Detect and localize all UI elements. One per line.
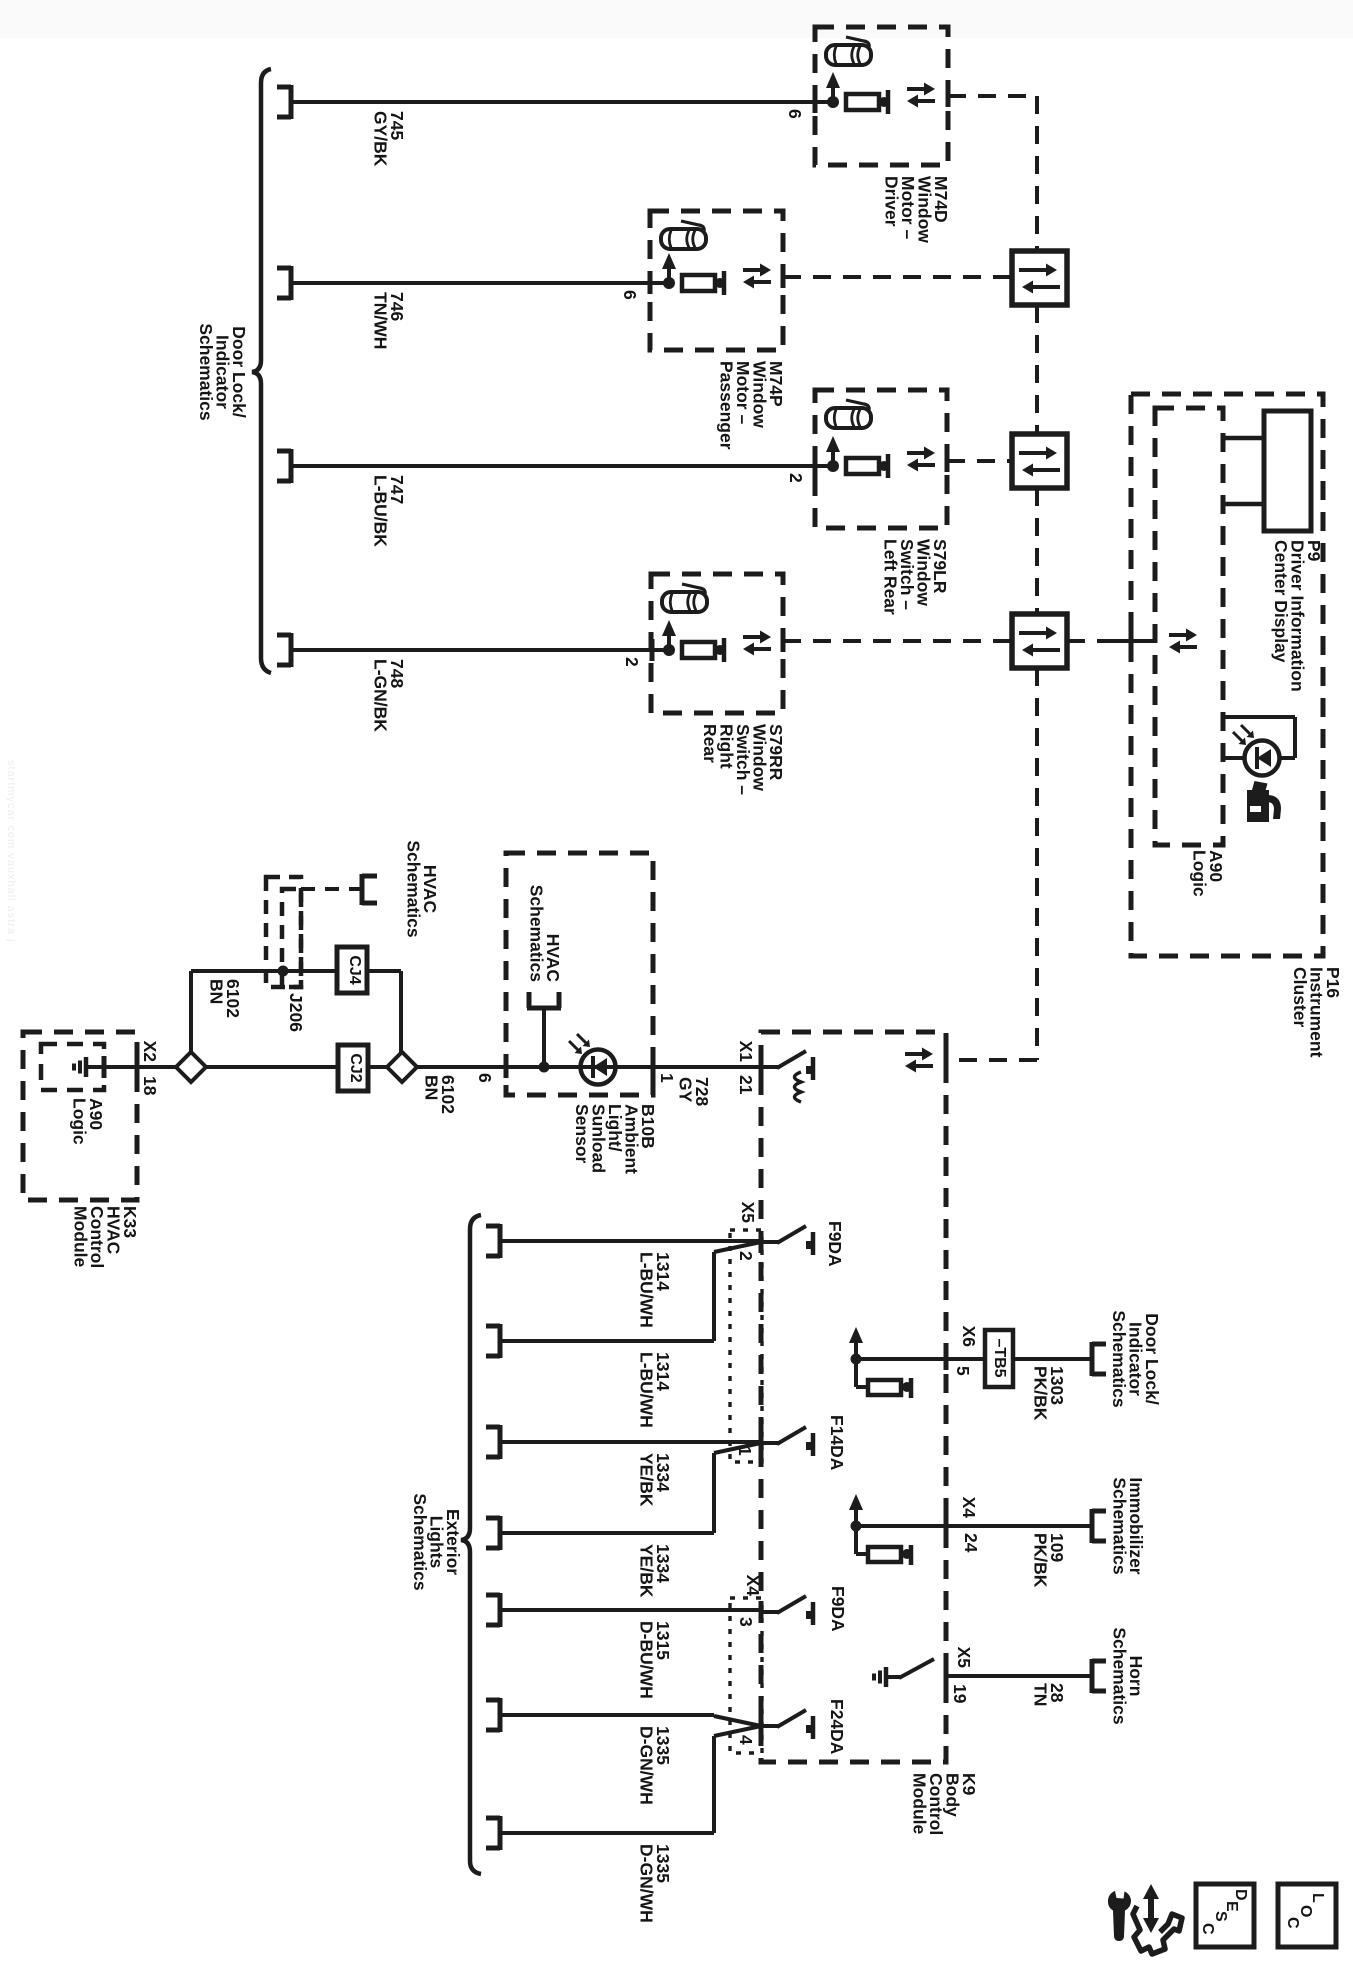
arrow up at X4-24 [851,1521,862,1532]
connector X4 dotted box [730,1598,762,1753]
HVAC reference connector (B10B) [527,1006,561,1011]
resistor to ground (X4-24) [854,1526,858,1554]
window switch S79RR car icon [662,592,707,612]
dashed wire S79RR to gateway 3 [783,639,1012,643]
svg-text:PK/BK: PK/BK [1031,1533,1051,1588]
window switch S79LR box [815,390,947,528]
wire branch up from splice S1 [189,971,193,1052]
window motor M74P serial data arrows [743,268,760,272]
immobilizer reference connector [1090,1509,1095,1543]
wire TB5 to door lock reference [1013,1357,1092,1361]
connector wire 1335 (1833) [498,1816,503,1850]
svg-text:4: 4 [736,1735,756,1745]
svg-text:Schematics: Schematics [1109,1310,1129,1408]
svg-text:Schematics: Schematics [196,323,216,421]
svg-text:Logic: Logic [1190,850,1210,897]
svg-text:D-BU/WH: D-BU/WH [637,1621,657,1699]
svg-text:D: D [1232,1889,1249,1901]
svg-text:X5: X5 [954,1647,974,1669]
driver switch F9DA (X5-2) [761,1240,778,1244]
junction J206 dot [278,966,289,977]
svg-text:5: 5 [953,1366,973,1376]
svg-text:GY/BK: GY/BK [371,111,391,167]
dashed bus gateway1 to gateway2 [1035,305,1039,434]
svg-text:X5: X5 [738,1202,758,1224]
wire 1314 L-BU/WH (1241) [500,1239,761,1243]
wrench icon [1108,1891,1131,1941]
svg-text:Module: Module [71,1206,91,1268]
wire splice S1 to CJ2 [206,1065,338,1069]
connector X5 dotted box [730,1230,762,1462]
svg-text:Schematics: Schematics [404,840,424,938]
coil driver mark [795,1072,802,1102]
svg-text:3: 3 [736,1617,756,1627]
svg-text:C: C [1284,1917,1301,1929]
svg-text:18: 18 [140,1076,160,1096]
connector wire 747 [289,449,294,483]
horn switch stub [886,1675,900,1679]
window switch S79LR serial data arrows [907,451,924,455]
wire 1314 L-BU/WH (1341) [500,1339,714,1343]
dashed wire M74D to bus [948,94,1037,98]
fuel pump telltale icon [1247,790,1269,822]
svg-text:X1: X1 [736,1041,756,1063]
wire jog 1335 up [712,1736,716,1833]
serial data gateway box 3 [1012,614,1067,668]
wire 728 GY [653,1065,761,1069]
DESC reference box [1196,1884,1254,1947]
connector wire 1314 (1341) [498,1324,503,1358]
svg-text:YE/BK: YE/BK [637,1453,657,1507]
svg-text:X6: X6 [959,1326,979,1348]
svg-text:L-BU/WH: L-BU/WH [637,1352,657,1428]
LOC reference box [1278,1884,1336,1947]
svg-text:X4: X4 [743,1575,763,1597]
svg-text:–TB5: –TB5 [991,1338,1008,1377]
logic module A90 box (K33) [41,1044,104,1090]
wire K33 ground to X2 pin 18 [86,1065,176,1069]
driver switch F9DA (X4-3) [761,1610,778,1614]
svg-text:2: 2 [622,657,642,667]
window motor M74P car icon [661,229,706,249]
svg-text:L-BU/BK: L-BU/BK [371,475,391,547]
svg-text:Rear: Rear [700,724,720,763]
svg-text:Left Rear: Left Rear [881,539,901,615]
wire X6-5 internal [856,1357,946,1361]
window motor M74P motor element [663,277,675,289]
wire X4-24 internal [856,1524,946,1528]
splice pack J206 box B [282,889,301,987]
svg-text:O: O [1297,1905,1314,1917]
splice diamond S1 [176,1052,206,1082]
wire upper branch to CJ4 [191,969,337,973]
svg-text:F14DA: F14DA [827,1415,847,1471]
pin ticks at box-edge crossings [135,1056,140,1078]
wire X5-19 to horn reference [946,1674,1092,1678]
stem to sensor wire [542,1008,546,1067]
connector wire 746 [289,266,294,300]
connector wire 1314 (1241) [498,1224,503,1258]
serial arrows in BCM [905,1052,922,1056]
junction block CJ4 [337,947,367,993]
wire 748 L-GN/BK [291,648,669,652]
dashed bus into BCM [946,1058,1037,1062]
window switch S79LR motor element [827,460,839,472]
svg-text:19: 19 [950,1684,970,1704]
ground (K33 logic) [84,1057,89,1077]
wire 747 L-BU/BK [291,464,833,468]
ground (horn switch) [884,1667,889,1687]
connector wire 1334 (1442) [498,1425,503,1459]
indicator LED D1 (cluster) [1223,715,1295,719]
svg-text:Schematics: Schematics [1110,1627,1130,1725]
window motor M74P box [650,211,783,350]
window motor M74D serial data arrows [907,87,924,91]
driver switch F14DA (pin 1) [761,1441,778,1445]
svg-text:Logic: Logic [70,1098,90,1145]
wire CJ2 to splice S2 [368,1065,387,1069]
pointer zigzag icon [1133,1906,1182,1954]
svg-text:2: 2 [786,473,806,483]
svg-text:YE/BK: YE/BK [637,1544,657,1598]
svg-text:CJ4: CJ4 [346,955,363,984]
svg-text:Sensor: Sensor [572,1104,592,1164]
wire jog 1314 pair [712,1252,716,1341]
wire through B10B [506,1065,653,1069]
wire 1334 YE/BK (1533) [500,1531,714,1535]
svg-text:Center Display: Center Display [1271,540,1291,663]
svg-text:F9DA: F9DA [828,1586,848,1632]
svg-text:TN/WH: TN/WH [371,292,391,349]
window switch S79RR motor element [663,644,675,656]
connector wire 745 [289,85,294,119]
HVAC control module K33 box [23,1032,137,1200]
wire jog 1335 down [712,1715,716,1717]
window motor M74D motor element [827,96,839,108]
connector wire 748 [289,633,294,667]
svg-text:X4: X4 [959,1497,979,1519]
serial arrows into A90 [1169,633,1186,637]
svg-text:D-GN/WH: D-GN/WH [637,1726,657,1805]
svg-text:GY: GY [676,1077,696,1103]
splice pack J206 box A [266,877,301,987]
resistor to ground (X6-5) [854,1359,858,1387]
wire 1334 YE/BK (1442) [500,1440,761,1444]
wire to TB5 [946,1357,985,1361]
driver switch F24DA (pin 4) [761,1724,778,1728]
svg-text:PK/BK: PK/BK [1031,1366,1051,1421]
wire 746 TN/WH [291,281,669,285]
wire CJ4 to corner [367,969,401,973]
serial data gateway box 2 [1012,434,1067,488]
instrument cluster P16 box [1131,394,1323,956]
svg-text:Passenger: Passenger [717,361,737,450]
svg-text:24: 24 [961,1533,981,1553]
svg-text:startmycar com vauxhall astra: startmycar com vauxhall astra j [5,760,17,943]
dashed bus gateway3 down to BCM [1035,668,1039,1060]
svg-text:21: 21 [736,1075,756,1095]
svg-text:S: S [1212,1911,1229,1922]
dashed bus down to gateway 1 [1035,96,1039,251]
svg-text:1: 1 [657,1073,677,1083]
svg-text:F9DA: F9DA [825,1221,845,1267]
logic module A90 box (cluster) [1155,408,1223,845]
wire 1335 D-GN/WH (1715) [500,1713,714,1717]
wire 745 GY/BK [291,100,833,104]
svg-text:J206: J206 [286,993,306,1032]
connector wire 1335 (1715) [498,1698,503,1732]
svg-text:C: C [1199,1923,1216,1935]
horn reference connector [1090,1659,1095,1693]
display P9 box [1264,411,1311,531]
double arrow icon [1148,1898,1154,1920]
dashed bus gateway2 to gateway3 [1035,488,1039,614]
window motor M74D box [815,27,948,165]
svg-text:6: 6 [785,109,805,119]
svg-text:L: L [1309,1893,1326,1903]
wire jog 1334 pair [712,1453,716,1533]
svg-text:Module: Module [910,1773,930,1835]
svg-text:6: 6 [620,290,640,300]
svg-text:2: 2 [736,1251,756,1261]
brace Exterior Lights Schematics [461,1215,481,1874]
svg-text:F24DA: F24DA [827,1699,847,1755]
arrow up at X6-5 [851,1354,862,1365]
svg-text:L-GN/BK: L-GN/BK [371,659,391,732]
svg-text:Schematics: Schematics [1110,1477,1130,1575]
dashed wire M74P to gateway 1 [783,275,1012,279]
wire 1315 D-BU/WH (1610) [500,1608,761,1612]
sensor B10B box [506,853,653,1095]
driver switch X1-21 [761,1065,778,1069]
HVAC reference connector (J206) [360,874,365,905]
svg-text:Schematics: Schematics [527,885,547,983]
svg-text:Driver: Driver [882,176,902,227]
body control module K9 box [761,1032,946,1762]
solid wire into instrument cluster [1109,639,1156,643]
wire 6102 BN to B10B [417,1065,506,1069]
connector wire 1334 (1533) [498,1516,503,1550]
terminal block TB5 [985,1330,1013,1387]
junction block CJ2 [338,1045,368,1091]
svg-text:6: 6 [475,1073,495,1083]
svg-text:X2: X2 [140,1041,160,1063]
dashed wire S79LR to gateway 2 [947,459,1012,463]
splice diamond S2 [387,1052,417,1082]
svg-text:Schematics: Schematics [410,1493,430,1591]
door lock reference connector [1090,1342,1095,1376]
horn switch blade [899,1659,934,1678]
svg-text:D-GN/WH: D-GN/WH [637,1844,657,1923]
svg-text:BN: BN [422,1075,442,1100]
window switch S79RR serial data arrows [743,635,760,639]
wire 1335 D-GN/WH (1833) [500,1831,714,1835]
svg-text:BN: BN [207,979,227,1004]
brace Door Lock/Indicator Schematics [252,69,271,673]
P9 stub wires [1224,436,1264,441]
svg-text:CJ2: CJ2 [347,1053,364,1082]
dashed wire gateway3 to instrument cluster [1067,639,1109,643]
photo sensor symbol B10B [581,1050,616,1085]
svg-text:TN: TN [1031,1683,1051,1706]
svg-text:L-BU/WH: L-BU/WH [637,1252,657,1328]
window switch S79LR car icon [826,408,871,428]
dashed wire J206 to HVAC reference [301,887,362,891]
svg-text:Cluster: Cluster [1290,967,1310,1027]
wire X4-24 to immobilizer reference [946,1524,1092,1528]
window motor M74D car icon [826,45,871,65]
window switch S79RR box [651,574,783,713]
serial data gateway box 1 [1012,251,1067,305]
connector wire 1315 (1610) [498,1593,503,1627]
